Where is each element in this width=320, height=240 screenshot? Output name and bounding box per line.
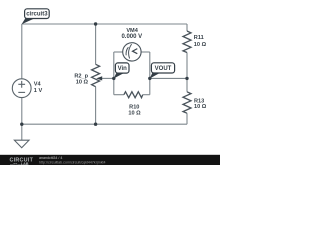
node junction top (pot/top wire) — [94, 22, 97, 25]
node Vin junction — [112, 77, 115, 80]
potentiometer R2_p wiper arrow — [96, 76, 102, 80]
label R10 — [128, 104, 141, 116]
wire R10 left lead — [114, 94, 124, 96]
potentiometer R2_p — [92, 64, 100, 86]
flag VOUT tail — [150, 72, 160, 78]
wire VM4 loop left vertical — [113, 52, 115, 95]
voltage source V4 — [12, 79, 31, 98]
wire ground stem — [21, 124, 23, 140]
flag circuit3 — [25, 9, 50, 19]
resistor R10 — [124, 92, 143, 98]
svg-text:R11: R11 — [194, 35, 204, 41]
flag circuit3 tail — [22, 18, 34, 24]
svg-text:V4: V4 — [34, 82, 42, 88]
wire wiper to Vin node — [100, 77, 114, 79]
resistor R11 — [183, 31, 191, 53]
node junction pot bottom — [94, 123, 97, 126]
label R2_p — [74, 73, 88, 85]
wire right vertical R11 bottom to VOUT node — [186, 53, 188, 92]
wire VM4 loop right vertical — [149, 52, 151, 95]
svg-text:Vin: Vin — [118, 66, 128, 72]
wire right vertical R13 bottom lead — [186, 113, 188, 124]
svg-text:10 Ω: 10 Ω — [194, 42, 207, 48]
flag VOUT — [151, 63, 174, 73]
wire right vertical R11 lead top — [186, 24, 188, 31]
wire top horizontal — [22, 23, 187, 25]
svg-text:10 Ω: 10 Ω — [194, 104, 207, 110]
flag Vin tail — [114, 72, 124, 78]
svg-text:0.000 V: 0.000 V — [121, 34, 142, 40]
footer CircuitLab logo — [10, 158, 34, 166]
wire VM4 right stub — [141, 51, 150, 53]
wire pot bottom lead — [95, 87, 97, 125]
svg-text:10 Ω: 10 Ω — [128, 110, 141, 116]
label V4 value — [34, 82, 43, 94]
svg-text:anandciti34 / 4: anandciti34 / 4 — [39, 156, 62, 160]
svg-text:http://circuitlab.com/circuit/: http://circuitlab.com/circuit/cqkt447krj… — [39, 161, 106, 165]
wire VOUT node to right column — [150, 77, 187, 79]
node junction bottom-left (ground) — [20, 123, 23, 126]
label R13 — [194, 98, 207, 110]
footer bar — [0, 155, 220, 165]
svg-text:R10: R10 — [129, 104, 139, 110]
svg-text:R2_p: R2_p — [74, 73, 88, 79]
wire left vertical (top wire corner to V4 top) — [21, 24, 23, 79]
wire R10 right lead — [143, 94, 150, 96]
wire VM4 left stub — [114, 51, 123, 53]
flag Vin — [115, 63, 129, 73]
svg-text:VOUT: VOUT — [155, 66, 172, 72]
svg-text:10 Ω: 10 Ω — [76, 79, 89, 85]
node junction right column VOUT — [185, 77, 188, 80]
footer user text — [39, 156, 106, 164]
voltmeter VM4 — [123, 43, 141, 61]
resistor R13 — [183, 92, 191, 113]
voltmeter VM4 needle arrowhead — [133, 49, 138, 54]
svg-text:circuit3: circuit3 — [26, 12, 48, 18]
node VOUT junction — [148, 77, 151, 80]
svg-text:1 V: 1 V — [34, 88, 43, 94]
svg-text:—≡≡—LAB: —≡≡—LAB — [10, 162, 29, 165]
wire left vertical (V4 bottom to bottom wire) — [21, 98, 23, 125]
wire pot top lead — [95, 24, 97, 64]
label VM4 value — [121, 28, 142, 40]
wire bottom horizontal — [22, 123, 187, 125]
label R11 — [194, 35, 207, 48]
ground — [14, 140, 29, 148]
